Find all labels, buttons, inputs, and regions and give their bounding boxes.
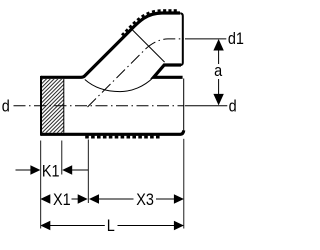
hatched socket cross-section [42,79,64,133]
dimension K1 [16,169,32,171]
extension line at pipe left end [40,141,42,229]
serrations on branch [121,9,177,36]
svg-text:K1: K1 [42,162,60,180]
extension line at socket depth [61,141,63,175]
dimension X1 [40,194,50,204]
dimension a [213,39,223,51]
svg-text:d: d [229,98,237,116]
dimension d1 [185,38,226,40]
svg-text:a: a [214,62,222,80]
svg-text:X3: X3 [136,191,154,209]
extension line at branch axis [87,140,89,204]
branch centerline [88,39,185,107]
branch outer wall [81,13,180,77]
dimension X3 [89,194,99,204]
svg-text:d: d [2,98,10,116]
main centerline [14,105,185,107]
bore opening arc [85,78,154,92]
pipe end face [183,79,185,131]
socket inner edge [63,79,65,133]
pipe bottom edge [41,130,184,134]
pipe left end cap [40,76,42,136]
branch step [154,65,183,77]
svg-text:L: L [107,217,115,235]
dimension d left label [2,98,10,116]
dimension d right [185,105,228,107]
transverse seam [131,29,164,62]
pipe top edge [41,76,81,79]
dimension L [40,221,50,231]
extension line at pipe right end [183,139,185,229]
svg-text:d1: d1 [228,30,244,48]
svg-text:X1: X1 [53,191,71,209]
branch opening edge [180,13,183,65]
serrations on pipe bottom [85,136,159,139]
